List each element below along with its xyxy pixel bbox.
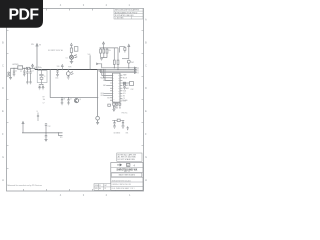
svg-text:D1: D1 bbox=[66, 58, 68, 60]
svg-text:VSS: VSS bbox=[107, 97, 110, 99]
svg-text:OSC1: OSC1 bbox=[100, 93, 104, 95]
svg-text:100n: 100n bbox=[55, 78, 58, 80]
svg-text:MAIN TIMER BOARD: MAIN TIMER BOARD bbox=[119, 174, 136, 177]
resistor R2 bbox=[100, 48, 102, 58]
svg-text:P13: P13 bbox=[136, 72, 139, 74]
capacitor C12 bbox=[45, 123, 48, 142]
wire into IC pin 1 bbox=[102, 70, 113, 76]
svg-text:Q1: Q1 bbox=[79, 99, 81, 101]
svg-text:C7: C7 bbox=[43, 103, 45, 105]
svg-text:B UPDATED VALUES: B UPDATED VALUES bbox=[115, 14, 134, 17]
capacitor C6 bbox=[37, 113, 39, 122]
svg-text:C8: C8 bbox=[63, 98, 65, 100]
svg-text:E: E bbox=[2, 109, 4, 113]
svg-text:MCLR: MCLR bbox=[123, 77, 127, 79]
junction dots band bbox=[103, 47, 119, 70]
svg-text:B: B bbox=[145, 40, 147, 44]
svg-text:SHT: SHT bbox=[104, 185, 107, 187]
svg-text:1:1: 1:1 bbox=[99, 185, 101, 187]
resistor R3 bbox=[103, 48, 105, 58]
svg-text:RX: RX bbox=[123, 96, 125, 98]
PDF badge bbox=[0, 0, 43, 28]
svg-text:1/1: 1/1 bbox=[104, 188, 106, 190]
pull-up tie wire bbox=[100, 47, 119, 49]
crystal Y2 cluster bbox=[112, 119, 124, 128]
wire into IC pin 3 bbox=[105, 70, 113, 81]
svg-text:C9: C9 bbox=[70, 98, 72, 100]
battery BT1 bbox=[127, 126, 129, 130]
transistor Q1 bbox=[74, 99, 78, 103]
svg-text:OSC2: OSC2 bbox=[100, 95, 104, 97]
svg-text:PWR: PWR bbox=[68, 66, 71, 68]
power flag +5V bbox=[32, 64, 34, 68]
capacitor C5 bbox=[127, 60, 130, 68]
capacitor C9 bbox=[67, 98, 70, 105]
svg-text:D: D bbox=[2, 86, 4, 90]
power flag RST bbox=[128, 44, 130, 58]
test point TP3 bbox=[59, 133, 63, 139]
net label TxD wire bbox=[88, 54, 92, 70]
svg-text:B: B bbox=[2, 40, 4, 44]
svg-text:C12: C12 bbox=[48, 126, 51, 128]
svg-text:DO NOT SCALE DWG: DO NOT SCALE DWG bbox=[118, 158, 136, 161]
svg-text:Released for manufacture by PD: Released for manufacture by PD Devices bbox=[7, 184, 42, 187]
power flag A bbox=[61, 65, 63, 70]
svg-text:C1: C1 bbox=[15, 71, 17, 73]
capacitor C11 bbox=[116, 103, 118, 105]
signal wire B bbox=[99, 70, 136, 72]
relay box K1 bbox=[74, 47, 78, 52]
resistor R8 chain bbox=[123, 82, 126, 89]
svg-text:C: C bbox=[145, 63, 147, 67]
svg-text:FILE: TIMER.SCH SHEET 1 OF 1: FILE: TIMER.SCH SHEET 1 OF 1 bbox=[112, 188, 135, 190]
svg-text:C3: C3 bbox=[32, 71, 34, 73]
svg-text:10k: 10k bbox=[43, 99, 46, 101]
svg-text:LM7805: LM7805 bbox=[12, 64, 19, 66]
svg-text:TP1 GND: TP1 GND bbox=[122, 100, 128, 102]
svg-text:A: A bbox=[145, 17, 147, 21]
wire into IC pin 2 bbox=[103, 70, 112, 78]
shield box bbox=[37, 71, 47, 83]
svg-text:C: C bbox=[2, 63, 4, 67]
svg-text:BT1: BT1 bbox=[126, 133, 129, 135]
signal wire A bbox=[100, 64, 136, 69]
junction dots bbox=[13, 68, 31, 69]
resistor R4 bbox=[101, 48, 108, 58]
wire bbox=[11, 67, 36, 69]
power flag VCC bbox=[103, 42, 105, 48]
header P3 bbox=[120, 47, 126, 53]
LED D1 bbox=[70, 55, 78, 60]
signal wire bus extension bbox=[98, 69, 137, 71]
inductor L1 bbox=[26, 67, 29, 69]
svg-text:Y1: Y1 bbox=[44, 76, 46, 78]
svg-text:DESIGN: J SMITH CHK: RB: DESIGN: J SMITH CHK: RB bbox=[112, 184, 131, 186]
svg-text:REV DESCRIPTION APPRV: REV DESCRIPTION APPRV bbox=[115, 9, 140, 12]
test point TP4 bbox=[96, 116, 100, 124]
svg-text:D: D bbox=[145, 86, 147, 90]
svg-text:OSC 8MHz: OSC 8MHz bbox=[35, 67, 42, 69]
svg-text:ICSP: ICSP bbox=[131, 89, 134, 91]
main bus wire bbox=[35, 69, 98, 70]
diode D2 bbox=[119, 103, 121, 105]
svg-text:G: G bbox=[118, 96, 119, 98]
resistor R9 bbox=[117, 48, 119, 70]
wire bus drop bbox=[97, 70, 99, 117]
svg-text:REV 1.0: REV 1.0 bbox=[124, 171, 130, 173]
svg-text:32.768kHz: 32.768kHz bbox=[114, 133, 121, 135]
svg-text:C NOTES: C NOTES bbox=[115, 18, 124, 20]
wire battery rail bbox=[22, 132, 63, 134]
ground bbox=[112, 108, 120, 112]
svg-text:E: E bbox=[145, 109, 147, 113]
connector P4 bbox=[122, 82, 133, 86]
power flag VIN bbox=[36, 44, 38, 70]
capacitor C2 bbox=[23, 68, 26, 76]
svg-text:A RELEASED FOR PROD: A RELEASED FOR PROD bbox=[115, 11, 138, 14]
svg-text:TP3: TP3 bbox=[60, 137, 63, 139]
IC U1 bbox=[100, 73, 129, 103]
svg-text:H: H bbox=[145, 178, 147, 182]
revision table bbox=[114, 9, 143, 20]
wire RST rail bbox=[122, 58, 129, 60]
capacitor C13 bbox=[108, 104, 120, 109]
title block bbox=[111, 163, 143, 191]
signal wire C bbox=[100, 70, 136, 74]
svg-text:H: H bbox=[2, 178, 4, 182]
svg-text:5V0: 5V0 bbox=[57, 66, 60, 68]
svg-text:TP2 VCC: TP2 VCC bbox=[122, 113, 128, 115]
svg-text:10k: 10k bbox=[108, 50, 111, 52]
sheet border frame (decorative) bbox=[7, 9, 144, 192]
ground bbox=[100, 58, 103, 61]
right pin net labels bbox=[123, 74, 129, 103]
svg-text:C2: C2 bbox=[20, 71, 22, 73]
resistor R7 label group bbox=[43, 97, 46, 105]
capacitor C10 bbox=[113, 103, 116, 105]
resistor R5 bbox=[113, 48, 115, 68]
svg-text:TX: TX bbox=[123, 98, 125, 100]
capacitor C14 bbox=[56, 70, 59, 77]
ground bbox=[9, 75, 12, 79]
power flag BT bbox=[22, 122, 24, 133]
svg-text:G: G bbox=[2, 155, 4, 159]
ground bbox=[67, 77, 70, 79]
buzzer BZ1 bbox=[66, 70, 73, 78]
ground bbox=[70, 59, 73, 63]
capacitor C3 bbox=[26, 68, 29, 84]
resistor R1 bbox=[70, 45, 72, 55]
svg-text:P10: P10 bbox=[136, 67, 139, 69]
crystal Y1 bbox=[39, 70, 43, 85]
revision history box bbox=[117, 153, 142, 161]
svg-text:G: G bbox=[145, 155, 147, 159]
capacitor C8 bbox=[61, 98, 64, 105]
wire mid rail bbox=[50, 70, 97, 98]
power flag D bbox=[70, 43, 72, 45]
capacitor C15 bbox=[38, 84, 43, 90]
voltage regulator U2 bbox=[12, 64, 23, 69]
off-page arrow left RxD bbox=[97, 63, 101, 65]
title block scale cells bbox=[94, 184, 111, 191]
svg-text:C6: C6 bbox=[36, 111, 38, 113]
capacitor C4 bbox=[29, 68, 32, 84]
capacitor C1 bbox=[13, 68, 16, 76]
left pin net labels bbox=[100, 76, 109, 99]
svg-text:SIZE: SIZE bbox=[95, 188, 98, 190]
svg-text:PDF: PDF bbox=[9, 7, 40, 24]
svg-text:R7: R7 bbox=[43, 97, 45, 99]
connector J1 DC jack bbox=[8, 68, 11, 76]
svg-text:SW1: SW1 bbox=[131, 62, 134, 64]
capacitor C16 bbox=[42, 84, 45, 90]
svg-text:SCL: SCL bbox=[123, 93, 126, 95]
